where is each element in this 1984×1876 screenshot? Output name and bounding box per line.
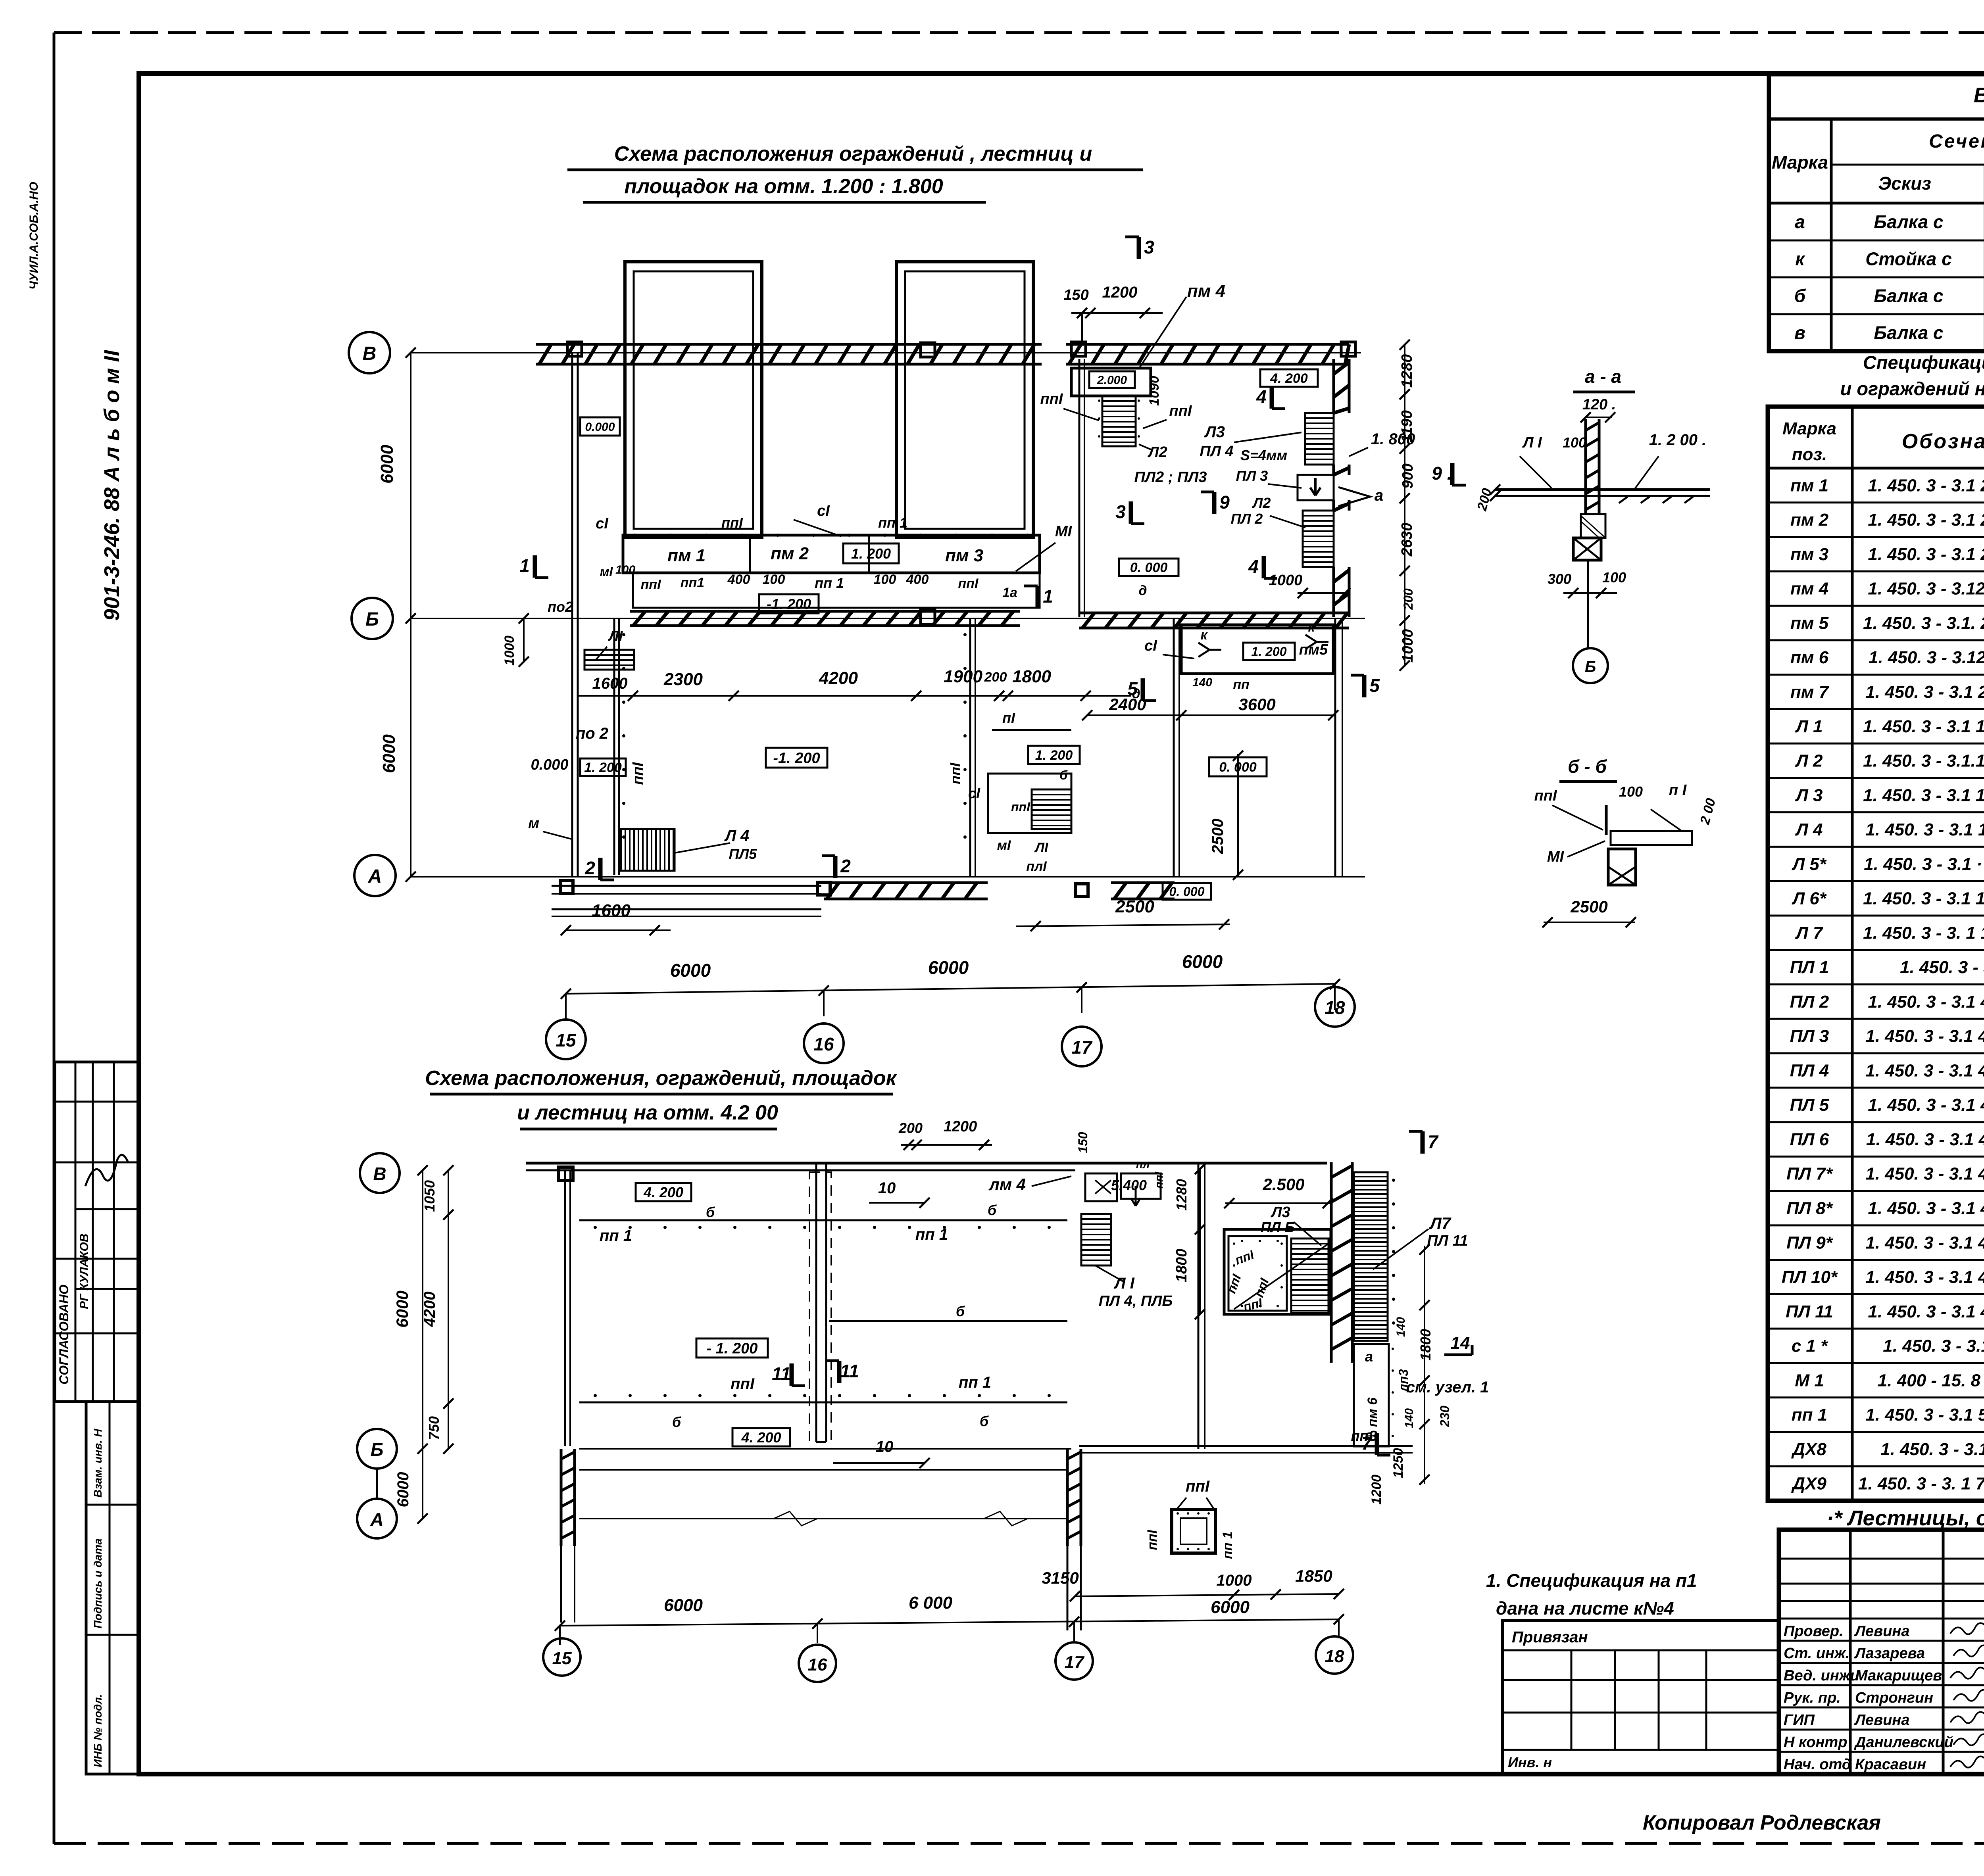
section mark 3 top	[1137, 237, 1141, 259]
svg-text:м: м	[528, 815, 539, 832]
svg-text:Л2: Л2	[1252, 495, 1271, 511]
svg-text:4. 200: 4. 200	[1270, 371, 1308, 386]
svg-text:сІ: сІ	[596, 515, 609, 532]
svg-text:1. 450. 3 - 3.1 4.1. 21. 0 -: 1. 450. 3 - 3.1 4.1. 21. 0 - 01	[1868, 992, 1984, 1012]
svg-text:лп3: лп3	[1396, 1369, 1411, 1392]
svg-text:Спецификация , к схеме распо: Спецификация , к схеме расположения лест…	[1863, 352, 1984, 373]
svg-text:МІ: МІ	[1547, 849, 1565, 865]
svg-text:ппІ: ппІ	[1534, 787, 1557, 804]
bp beam row 1	[579, 1219, 1067, 1221]
svg-text:Марка: Марка	[1772, 152, 1828, 173]
column squares on top wall	[567, 342, 582, 356]
stair enclosure bottom right of big room	[988, 774, 1071, 833]
T5 mark right	[1362, 675, 1367, 697]
stair 3 right wall lower	[1303, 511, 1334, 567]
top wall hatched beam left segment	[536, 343, 1042, 346]
svg-text:ппІ: ппІ	[1011, 800, 1030, 814]
svg-text:230: 230	[1438, 1406, 1452, 1427]
svg-text:В: В	[363, 343, 377, 364]
svg-text:ПЛ 4, ПЛБ: ПЛ 4, ПЛБ	[1099, 1293, 1173, 1310]
svg-text:1. 450. 3 - 3.12 1.1. 0. 0 -: 1. 450. 3 - 3.12 1.1. 0. 0 - 05	[1868, 579, 1984, 599]
bp bottom dim line	[560, 1619, 1339, 1626]
svg-text:1. 450. 3 - 3.1 1.1.1. 0. 0 -: 1. 450. 3 - 3.1 1.1.1. 0. 0 - 05	[1865, 820, 1984, 839]
svg-text:6000: 6000	[379, 734, 399, 773]
svg-text:100: 100	[763, 572, 785, 587]
svg-text:ПЛ Б: ПЛ Б	[1261, 1219, 1295, 1235]
bp B line walls below	[560, 1449, 563, 1546]
svg-text:Подпись и дата: Подпись и дата	[92, 1538, 104, 1628]
svg-text:1200: 1200	[1369, 1475, 1384, 1505]
svg-text:мІ: мІ	[600, 565, 613, 579]
tank 2 outer	[896, 262, 1033, 538]
svg-text:Н контр: Н контр	[1784, 1734, 1847, 1751]
svg-text:2500: 2500	[1570, 897, 1607, 916]
svg-text:пп 1: пп 1	[600, 1227, 632, 1244]
svg-text:17: 17	[1065, 1653, 1085, 1672]
svg-text:100: 100	[1619, 783, 1643, 800]
svg-text:пп 1: пп 1	[1792, 1405, 1827, 1425]
svg-text:Провер.: Провер.	[1784, 1623, 1844, 1640]
svg-text:б - б: б - б	[1568, 756, 1607, 777]
svg-text:ПЛ 1: ПЛ 1	[1790, 958, 1829, 977]
svg-text:0. 000: 0. 000	[1169, 885, 1205, 899]
svg-text:15: 15	[552, 1649, 572, 1668]
svg-text:9: 9	[1219, 492, 1230, 513]
svg-text:пм 4: пм 4	[1187, 281, 1225, 301]
platform band pm1-pm3	[623, 535, 1040, 573]
grid line A	[411, 876, 1365, 878]
svg-text:ИНБ № подл.: ИНБ № подл.	[92, 1694, 104, 1767]
svg-text:В: В	[373, 1164, 386, 1184]
svg-text:ПЛ 11: ПЛ 11	[1786, 1302, 1833, 1321]
bp section mark 7 top right	[1421, 1131, 1425, 1154]
section a-a platform beam	[1495, 488, 1710, 491]
svg-text:Стронгин: Стронгин	[1855, 1690, 1933, 1706]
soglasovano stamp table	[55, 1062, 139, 1402]
svg-text:1280: 1280	[1173, 1179, 1190, 1211]
svg-text:1. 450. 3 - 3.1 1. 2.1. 0. 0: 1. 450. 3 - 3.1 1. 2.1. 0. 0 - 07	[1863, 785, 1984, 805]
svg-text:Схема расположения, огражден: Схема расположения, ограждений, площадок	[425, 1067, 898, 1090]
sub dim 2500	[1016, 924, 1230, 926]
section mark 9	[1212, 492, 1217, 514]
svg-text:Л 4: Л 4	[1795, 820, 1823, 839]
right dim column 1280 1190 900 2630 200 1000	[1404, 345, 1405, 666]
svg-text:1. 2 00 .: 1. 2 00 .	[1649, 431, 1707, 449]
svg-text:900: 900	[1400, 463, 1416, 488]
ticks above platform band	[633, 534, 636, 537]
svg-text:ппІ: ппІ	[731, 1375, 755, 1393]
svg-text:6000: 6000	[394, 1472, 412, 1507]
svg-text:и ограждений на отм. 1.: и ограждений на отм. 1.200 , 1.800 , 4.2…	[1840, 378, 1984, 399]
svg-text:1. 450. 3 - 3.1 2.1.1. 0. 0 -: 1. 450. 3 - 3.1 2.1.1. 0. 0 -16	[1868, 476, 1984, 495]
svg-text:пл: пл	[1136, 1158, 1150, 1171]
svg-text:Балка с: Балка с	[1874, 211, 1943, 232]
svg-text:ПЛ 3: ПЛ 3	[1236, 468, 1268, 484]
svg-text:1. 450. 3 - 3.1 4.1. 2: 1. 450. 3 - 3.1 4.1. 2	[1900, 958, 1984, 977]
B line hatched beam	[630, 610, 1020, 613]
bottom grid circles 15-18	[546, 1020, 586, 1059]
svg-text:6000: 6000	[1182, 951, 1223, 972]
svg-text:пп 1: пп 1	[959, 1374, 991, 1391]
svg-text:1600: 1600	[592, 675, 628, 692]
svg-text:1600: 1600	[592, 901, 631, 920]
svg-text:пп 1: пп 1	[1220, 1531, 1235, 1559]
svg-text:S=4мм: S=4мм	[1240, 447, 1287, 463]
pp band under platforms	[633, 573, 1040, 608]
svg-text:300: 300	[1548, 571, 1571, 587]
svg-text:7: 7	[1361, 1433, 1373, 1454]
svg-text:ппІ: ппІ	[630, 762, 646, 785]
title block upper-left rows	[1779, 1558, 1984, 1560]
svg-text:4: 4	[1256, 386, 1267, 407]
elevation box 0.000 right mid	[1119, 559, 1178, 576]
svg-text:ПЛ 11: ПЛ 11	[1427, 1233, 1468, 1249]
section b-b beam	[1611, 831, 1692, 845]
svg-text:по 2: по 2	[576, 725, 608, 742]
bp inner room rect	[1224, 1229, 1331, 1314]
svg-text:17: 17	[1071, 1037, 1093, 1058]
svg-text:Б: Б	[1585, 658, 1596, 676]
right building: dim 150 1200 top	[1081, 313, 1083, 344]
svg-text:100: 100	[615, 563, 635, 576]
svg-text:0. 000: 0. 000	[1130, 560, 1168, 575]
svg-text:200: 200	[898, 1120, 923, 1136]
svg-text:6 000: 6 000	[909, 1593, 953, 1613]
svg-text:1. 450. 3 - 3.1 · 1.11. 0. 0 -: 1. 450. 3 - 3.1 · 1.11. 0. 0 - 11	[1864, 854, 1984, 874]
svg-text:пп 1: пп 1	[878, 515, 907, 531]
svg-text:Копировал Родлевская: Копировал Родлевская	[1643, 1811, 1881, 1834]
outside platform lines below A	[552, 908, 821, 910]
section mark 4 lower	[1262, 556, 1266, 578]
svg-text:1000: 1000	[1269, 572, 1303, 589]
svg-text:Данилевский: Данилевский	[1854, 1734, 1953, 1751]
bp grid circle B	[357, 1429, 397, 1469]
right building right wall hatched segments	[1332, 359, 1335, 413]
grid circle B	[352, 598, 393, 639]
section a-a axis line to circle B	[1587, 560, 1589, 648]
svg-text:1000: 1000	[1400, 629, 1416, 663]
svg-text:ПЛ 2: ПЛ 2	[1790, 992, 1829, 1012]
svg-text:16: 16	[808, 1655, 827, 1674]
svg-text:100: 100	[1602, 569, 1626, 586]
svg-text:14: 14	[1451, 1333, 1470, 1353]
svg-text:б: б	[672, 1414, 682, 1430]
svg-text:140: 140	[1394, 1317, 1407, 1337]
svg-text:Ведомость элементов: Ведомость элементов	[1974, 83, 1984, 107]
svg-text:Лазарева: Лазарева	[1854, 1645, 1925, 1662]
svg-text:1. 450. 3 - 3.1 4.1.1.1. 0 -: 1. 450. 3 - 3.1 4.1.1.1. 0 - 05	[1868, 1302, 1984, 1321]
svg-text:1800: 1800	[1173, 1249, 1190, 1283]
svg-text:2300: 2300	[663, 670, 703, 689]
stair L4 dense vertical hatch	[621, 829, 675, 871]
svg-text:3: 3	[1115, 501, 1126, 522]
svg-text:200: 200	[1401, 588, 1415, 610]
right wall of big room with dots	[969, 618, 971, 877]
svg-text:Взам. инв. Н: Взам. инв. Н	[92, 1429, 104, 1498]
svg-text:3600: 3600	[1238, 695, 1275, 714]
svg-text:1850: 1850	[1295, 1567, 1332, 1585]
svg-text:9 .: 9 .	[1432, 463, 1452, 484]
vedomost data rows	[1769, 240, 1984, 242]
svg-text:СОГЛАСОВАНО: СОГЛАСОВАНО	[57, 1285, 71, 1384]
svg-text:1. 450. 3 - 3.1 4.1.1.1. 0 -: 1. 450. 3 - 3.1 4.1.1.1. 0 - 02	[1868, 1198, 1984, 1218]
bp top left column square	[559, 1167, 573, 1181]
svg-text:б: б	[956, 1303, 965, 1319]
svg-text:18: 18	[1325, 1647, 1344, 1666]
svg-text:150: 150	[1063, 287, 1088, 303]
bp right lower beams	[1079, 1445, 1413, 1447]
svg-text:ппІ: ппІ	[958, 576, 979, 591]
svg-text:пм 4: пм 4	[1790, 579, 1828, 599]
svg-text:1. 450. 3 - 3.1 4.1.1.1. 0 - 0: 1. 450. 3 - 3.1 4.1.1.1. 0 - 06	[1868, 1095, 1984, 1115]
svg-text:Красавин: Красавин	[1855, 1756, 1926, 1773]
svg-text:пм 2: пм 2	[771, 544, 809, 563]
vedomost table outer	[1769, 74, 1984, 351]
stair 2 right wall upper	[1305, 413, 1334, 465]
signature squiggle	[85, 1155, 128, 1186]
svg-text:100: 100	[1563, 434, 1586, 451]
svg-text:15: 15	[556, 1030, 577, 1050]
bp section marks 11	[790, 1363, 794, 1386]
svg-text:2.500: 2.500	[1262, 1175, 1304, 1194]
svg-text:Л 2: Л 2	[1795, 751, 1823, 771]
dim 1000 under B left	[523, 618, 525, 662]
vedomost header grid	[1769, 202, 1984, 205]
bp 4.200 box top	[636, 1183, 691, 1201]
svg-text:Левина: Левина	[1854, 1712, 1910, 1728]
svg-text:5: 5	[1369, 675, 1380, 696]
svg-text:120 .: 120 .	[1582, 396, 1616, 413]
svg-text:Левина: Левина	[1854, 1623, 1910, 1640]
svg-text:200: 200	[984, 670, 1007, 685]
svg-text:ПЛ 8*: ПЛ 8*	[1786, 1198, 1833, 1218]
svg-text:ПЛ 5: ПЛ 5	[1790, 1095, 1829, 1115]
svg-text:4: 4	[1248, 556, 1259, 577]
svg-text:а: а	[1365, 1348, 1373, 1365]
right building: left wall double line	[1079, 359, 1080, 617]
svg-text:Л2: Л2	[1147, 444, 1167, 461]
left vertical dim line 6000+6000	[410, 353, 411, 877]
svg-text:ппІ: ппІ	[1145, 1529, 1160, 1550]
svg-text:4. 200: 4. 200	[741, 1429, 781, 1446]
section mark 5 and dim 2400 3600	[1141, 678, 1145, 701]
svg-text:Инв. н: Инв. н	[1508, 1754, 1552, 1770]
svg-text:Сечение: Сечение	[1929, 131, 1984, 152]
svg-text:16: 16	[813, 1034, 834, 1054]
svg-text:6000: 6000	[664, 1596, 703, 1615]
svg-text:1. Спецификация на п1: 1. Спецификация на п1	[1486, 1570, 1697, 1591]
grid column squares on A	[560, 881, 573, 893]
bp pm6 cell below ladder	[1354, 1344, 1389, 1446]
svg-text:1. 450. 3 - 3. 1 1.1.1. 0. 0: 1. 450. 3 - 3. 1 1.1.1. 0. 0 - 19	[1863, 923, 1984, 943]
svg-text:пп 1: пп 1	[915, 1226, 948, 1243]
svg-text:1800: 1800	[1417, 1329, 1434, 1361]
svg-text:Л3: Л3	[1270, 1204, 1290, 1221]
left wall double line	[571, 353, 573, 877]
bp small square column with dots	[1172, 1509, 1215, 1553]
bp sub dim 3150 1000 1850	[1075, 1594, 1339, 1596]
svg-text:Схема расположения ограждени: Схема расположения ограждений , лестниц …	[614, 142, 1092, 165]
svg-text:7: 7	[1428, 1131, 1439, 1152]
svg-text:-1. 200: -1. 200	[767, 596, 811, 612]
stair L1 small left	[584, 650, 634, 670]
svg-text:2630: 2630	[1399, 523, 1415, 557]
svg-text:1. 450. 3 - 3.1. 2.1.1. 0. 0 -: 1. 450. 3 - 3.1. 2.1.1. 0. 0 - 22	[1863, 613, 1984, 633]
section marks 1	[533, 555, 537, 578]
bp dim 200 1200 top	[901, 1144, 992, 1146]
svg-text:100: 100	[874, 572, 896, 587]
bp left dim lines	[422, 1170, 423, 1519]
section b-b column with X	[1608, 849, 1636, 885]
svg-text:-1. 200: -1. 200	[773, 750, 820, 767]
svg-text:ПЛ 4: ПЛ 4	[1790, 1061, 1829, 1080]
svg-text:1: 1	[1043, 586, 1053, 607]
bp -1.200 box	[696, 1338, 768, 1358]
inner wall with pp1 dots	[613, 618, 615, 875]
svg-text:6000: 6000	[670, 960, 711, 981]
svg-text:б: б	[1794, 286, 1806, 306]
svg-text:Б: Б	[365, 609, 379, 630]
svg-text:2500: 2500	[1209, 819, 1227, 854]
tank 1 inner	[634, 271, 753, 529]
svg-text:ппІ: ппІ	[1186, 1478, 1210, 1495]
svg-text:А: А	[368, 866, 382, 887]
svg-text:400: 400	[906, 572, 929, 587]
svg-text:1. 450. 3 - 3.1.1. 2.1. 0. 0 -: 1. 450. 3 - 3.1.1. 2.1. 0. 0 - 05	[1863, 751, 1984, 771]
svg-text:11: 11	[772, 1363, 791, 1384]
bp grid circle V	[360, 1153, 400, 1193]
svg-text:мІ: мІ	[997, 838, 1011, 853]
svg-text:140: 140	[1192, 676, 1212, 689]
section mark 4 under 4.200 box	[1270, 386, 1274, 409]
bp section mark 7	[1375, 1433, 1379, 1455]
svg-text:ПЛ 4: ПЛ 4	[1200, 443, 1233, 460]
pm5 platform rect	[1181, 625, 1333, 674]
svg-text:и лестниц на отм. 4.2 00: и лестниц на отм. 4.2 00	[517, 1101, 778, 1124]
bp left wall double line	[564, 1170, 566, 1446]
lower margin stamp table	[86, 1402, 139, 1774]
elevation box 0.000 right lower	[1209, 757, 1267, 776]
svg-text:1. 200: 1. 200	[851, 545, 891, 562]
svg-text:Л7: Л7	[1429, 1214, 1451, 1233]
svg-text:Л 3: Л 3	[1795, 785, 1823, 805]
svg-text:РГ КУЛАКОВ: РГ КУЛАКОВ	[78, 1234, 91, 1309]
svg-text:Рук. пр.: Рук. пр.	[1784, 1690, 1841, 1706]
bottom wall A: plain segment	[552, 885, 821, 887]
svg-text:·* Лестницы, ограждения, стре: ·* Лестницы, ограждения, стремянки обрез…	[1826, 1506, 1984, 1530]
svg-text:1. 200: 1. 200	[1035, 748, 1073, 763]
bp inner square with dots	[1228, 1236, 1287, 1311]
section a-a X box footing	[1573, 538, 1601, 560]
svg-text:пп 1: пп 1	[815, 575, 844, 591]
svg-text:1280: 1280	[1399, 354, 1415, 388]
elevation box -1.200 band	[759, 594, 819, 613]
svg-text:Привязан: Привязан	[1512, 1628, 1588, 1646]
svg-text:Эскиз: Эскиз	[1878, 173, 1931, 194]
svg-text:1. 400 - 15. 8 1 5 2 0 - 0: 1. 400 - 15. 8 1 5 2 0 - 0 4	[1878, 1371, 1984, 1390]
svg-text:ГИП: ГИП	[1784, 1712, 1815, 1728]
svg-text:1. 450. 3 - 3.1 4.1. 2.1. 0: 1. 450. 3 - 3.1 4.1. 2.1. 0 - 10	[1865, 1267, 1984, 1287]
svg-text:1. 450. 3 - 3.1 7.1. 0. 0.: 1. 450. 3 - 3.1 7.1. 0. 0. 3	[1880, 1440, 1984, 1459]
svg-text:3: 3	[1144, 237, 1154, 257]
svg-text:ппІ: ппІ	[1040, 391, 1063, 407]
svg-text:б: б	[988, 1202, 997, 1218]
svg-text:ппІ: ппІ	[721, 515, 743, 531]
bp top wall V double line	[526, 1162, 1327, 1165]
svg-text:1. 450. 3 - 3.1 1. 2.1. 0. 0 -: 1. 450. 3 - 3.1 1. 2.1. 0. 0 - 05	[1863, 889, 1984, 908]
lower right building left wall	[1173, 618, 1175, 877]
section mark 9 left of a-a	[1450, 463, 1455, 485]
outer border bottom (dashed)	[54, 1842, 1984, 1845]
boxed 1.200 pm5	[1243, 643, 1295, 660]
svg-text:1900: 1900	[944, 667, 982, 686]
elevation box 0.000 left	[580, 417, 620, 436]
bp grid circles 15-18	[543, 1638, 581, 1676]
title block outer	[1779, 1530, 1984, 1774]
svg-text:пм 3: пм 3	[1790, 545, 1828, 564]
svg-text:ПЛ 6: ПЛ 6	[1790, 1130, 1829, 1149]
svg-text:ппІ: ппІ	[947, 762, 963, 784]
svg-text:1800: 1800	[1012, 667, 1051, 686]
svg-text:901-3-246. 88 А л ь б о м: 901-3-246. 88 А л ь б о м II	[100, 350, 124, 621]
svg-text:б: б	[980, 1413, 989, 1429]
svg-text:1. 200: 1. 200	[1252, 645, 1287, 659]
svg-text:1а: 1а	[1002, 585, 1017, 600]
svg-text:10: 10	[878, 1179, 896, 1197]
svg-text:ЛІ: ЛІ	[1034, 840, 1049, 855]
bp beam row mid	[829, 1320, 1067, 1322]
svg-text:1. 450. 3 - 3.1 2.1.1. 0. 0 -: 1. 450. 3 - 3.1 2.1.1. 0. 0 - 41	[1865, 682, 1984, 702]
svg-text:Л3: Л3	[1204, 423, 1225, 441]
privyazan table	[1503, 1621, 1779, 1774]
svg-text:ДХ9: ДХ9	[1791, 1474, 1826, 1494]
svg-text:к: к	[1795, 249, 1805, 269]
svg-text:1200: 1200	[944, 1118, 977, 1135]
svg-text:пм 3: пм 3	[945, 546, 983, 565]
svg-text:1. 200: 1. 200	[584, 760, 622, 775]
svg-text:А: А	[370, 1509, 383, 1530]
bottom dim line 6000x3	[566, 984, 1335, 994]
svg-text:2: 2	[584, 858, 595, 878]
svg-text:11: 11	[840, 1361, 859, 1381]
arrow box on right wall	[1298, 475, 1334, 500]
svg-text:1: 1	[519, 555, 530, 576]
svg-text:лм 4: лм 4	[988, 1175, 1026, 1194]
svg-text:сІ: сІ	[1144, 637, 1157, 654]
tank 2 inner	[905, 271, 1025, 529]
svg-text:пм 2: пм 2	[1790, 510, 1829, 530]
svg-text:1. 450. 3 - 3.1 2.1.1. 0.0 - 2: 1. 450. 3 - 3.1 2.1.1. 0.0 - 25	[1868, 510, 1984, 530]
svg-text:а: а	[1375, 487, 1383, 504]
svg-text:ПЛ 2: ПЛ 2	[1231, 511, 1263, 527]
grid circle V	[349, 332, 390, 373]
svg-text:Стойка с: Стойка с	[1865, 249, 1952, 269]
svg-text:Л 1: Л 1	[1795, 717, 1823, 736]
svg-text:0.000: 0.000	[531, 757, 568, 773]
svg-text:4200: 4200	[421, 1292, 438, 1327]
svg-text:10: 10	[876, 1438, 894, 1455]
svg-text:МІ: МІ	[1055, 523, 1073, 540]
svg-text:Вед. инжи: Вед. инжи	[1784, 1667, 1859, 1684]
svg-text:Марка: Марка	[1782, 419, 1836, 438]
svg-text:пм 6: пм 6	[1790, 648, 1829, 667]
bp stair PL6 in inner room	[1291, 1239, 1328, 1313]
svg-text:ппІ: ппІ	[1153, 1171, 1165, 1189]
svg-text:к: к	[1200, 628, 1208, 643]
svg-text:140: 140	[1403, 1408, 1416, 1428]
svg-text:1. 450. 3 - 3.1 4.1. 2.1. 0 -: 1. 450. 3 - 3.1 4.1. 2.1. 0 - 10	[1865, 1027, 1984, 1046]
section marks 2	[598, 858, 603, 880]
